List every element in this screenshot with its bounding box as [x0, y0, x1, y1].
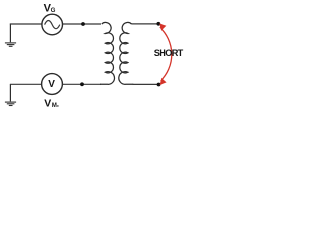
transformer secondary winding L2 [119, 22, 133, 84]
wire top rail from ground to primary top [10, 23, 101, 25]
transformer primary winding L1 [100, 22, 114, 84]
ground GND1 (top left) [5, 24, 16, 47]
label V_G [44, 2, 56, 14]
wire secondary bottom [133, 83, 159, 85]
svg-text:SHORT: SHORT [154, 48, 184, 58]
source V_G circle with sine [42, 14, 63, 35]
label V_M [44, 98, 57, 110]
short-circuit arrow arc (red) [160, 27, 172, 81]
wire secondary top [132, 23, 159, 25]
svg-text:G: G [51, 7, 56, 14]
wire bottom rail from ground to primary bottom [10, 83, 101, 85]
period after V_M subscript [57, 105, 58, 106]
short-circuit arrowhead bottom [160, 78, 167, 85]
ground GND2 (bottom left) [5, 84, 16, 105]
voltmeter V_M circle [42, 74, 63, 95]
node dot top left circuit [81, 22, 85, 26]
svg-text:M: M [52, 103, 57, 109]
svg-text:V: V [44, 98, 51, 110]
short-circuit arrowhead top [159, 23, 166, 31]
node dot bottom left circuit [80, 82, 84, 86]
node dot secondary bottom [157, 83, 161, 87]
node dot secondary top [156, 22, 160, 26]
svg-text:V: V [48, 79, 55, 90]
